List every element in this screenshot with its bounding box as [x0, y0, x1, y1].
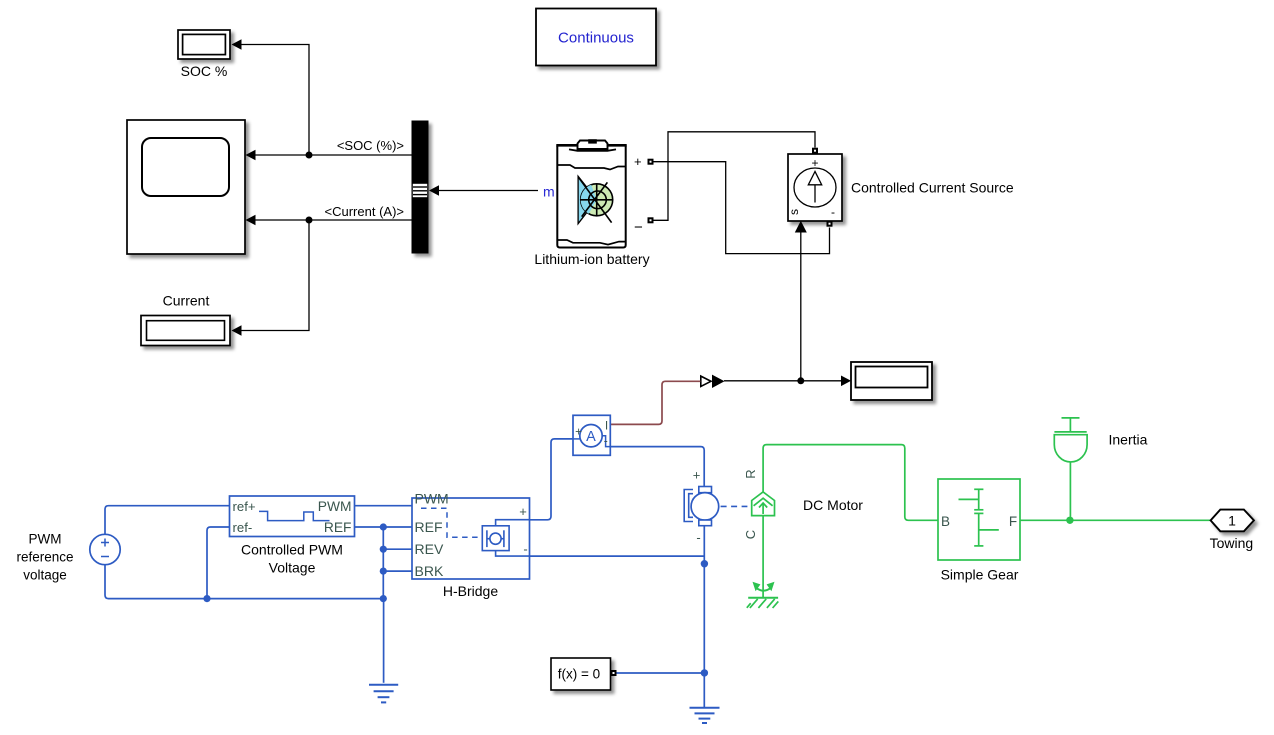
node junction display wire	[797, 377, 804, 384]
node junctions on vertical	[380, 523, 387, 530]
svg-text:A: A	[586, 429, 596, 445]
bus selector	[412, 121, 428, 253]
svg-text:ref-: ref-	[233, 520, 253, 535]
svg-text:1: 1	[1228, 513, 1236, 529]
wire gear F to Towing	[1020, 519, 1211, 521]
wire PS maroon from current sensor	[611, 381, 701, 424]
port Towing outport 1	[1211, 510, 1254, 532]
converter PS-Simulink triangles	[701, 376, 711, 386]
node junction Current	[306, 217, 313, 224]
wire source top to ref+	[105, 506, 230, 535]
wire SOC (%) scope line	[246, 150, 256, 161]
svg-text:voltage: voltage	[23, 568, 67, 583]
wire H-Bridge - rail	[530, 555, 705, 557]
wire to Display	[841, 376, 851, 387]
wire source bottom + bottom rail	[105, 565, 384, 599]
sensor Current Sensor	[573, 415, 610, 455]
svg-text:H-Bridge: H-Bridge	[443, 583, 498, 599]
port rotational R chevron	[752, 492, 775, 516]
wire H-Bridge + to sensor	[530, 439, 574, 520]
svg-text:reference: reference	[16, 550, 73, 565]
wire REF out	[355, 526, 413, 528]
ground electrical reference left	[369, 685, 398, 703]
svg-text:R: R	[743, 469, 758, 478]
svg-text:Continuous: Continuous	[558, 30, 634, 47]
svg-text:-: -	[523, 542, 527, 557]
wire SOC display to vertical	[232, 39, 242, 50]
svg-text:+: +	[634, 154, 642, 169]
display SOC % block	[178, 30, 230, 59]
svg-text:+: +	[575, 425, 582, 439]
svg-text:<SOC (%)>: <SOC (%)>	[337, 138, 404, 153]
display Current block	[141, 316, 230, 346]
wire battery + to CCS -	[654, 162, 830, 254]
inertia Inertia icon	[1054, 418, 1087, 520]
svg-text:PWM: PWM	[415, 491, 449, 507]
source Controlled Current Source	[788, 154, 842, 221]
svg-text:-: -	[831, 205, 835, 219]
battery Lithium-ion battery	[556, 139, 626, 247]
svg-text:+: +	[519, 504, 527, 519]
wire battery - to CCS +	[654, 132, 816, 221]
svg-text:SOC %: SOC %	[181, 63, 228, 79]
svg-text:Current: Current	[163, 293, 210, 309]
svg-text:Towing: Towing	[1210, 535, 1254, 551]
display Display block	[851, 362, 932, 400]
node junction ref- rail	[203, 595, 210, 602]
svg-text:Simple Gear: Simple Gear	[941, 567, 1019, 583]
svg-text:PWM: PWM	[318, 499, 352, 514]
block Simple Gear	[938, 479, 1020, 560]
svg-text:<Current (A)>: <Current (A)>	[325, 204, 404, 219]
svg-text:PWM: PWM	[29, 532, 62, 547]
icon H-bridge motor	[482, 526, 509, 551]
svg-text:F: F	[1009, 514, 1017, 529]
svg-text:Inertia: Inertia	[1109, 432, 1148, 448]
svg-text:B: B	[941, 514, 950, 529]
svg-text:f(x) = 0: f(x) = 0	[558, 667, 600, 682]
wire f(x)=0 to node	[617, 672, 705, 674]
svg-text:ref+: ref+	[233, 499, 256, 514]
wire REF/REV/BRK vertical	[382, 527, 384, 599]
block Controlled PWM Voltage	[230, 496, 355, 537]
battery icon pie	[578, 176, 613, 223]
svg-text:REV: REV	[415, 541, 444, 557]
wire ref- drop	[207, 527, 230, 599]
wire PWM out	[355, 505, 413, 507]
svg-text:s: s	[787, 209, 801, 215]
wire rail to ground	[383, 599, 385, 683]
ground mechanical rotational reference	[747, 582, 779, 608]
svg-text:−: −	[634, 219, 643, 236]
svg-text:-: -	[604, 434, 608, 448]
svg-text:BRK: BRK	[415, 563, 444, 579]
svg-text:Lithium-ion battery: Lithium-ion battery	[534, 251, 649, 267]
node junction f(x)	[701, 669, 708, 676]
wire sensor to motor +	[610, 447, 704, 487]
svg-text:Controlled Current Source: Controlled Current Source	[851, 180, 1014, 196]
wire motor - down	[703, 526, 705, 708]
wire Current (A) scope line	[246, 215, 256, 226]
svg-text:-: -	[696, 530, 700, 545]
svg-text:+: +	[811, 156, 818, 170]
source PWM reference voltage	[90, 534, 120, 564]
block H-Bridge	[412, 498, 530, 579]
ground electrical reference right	[690, 708, 720, 723]
svg-text:C: C	[743, 530, 758, 539]
block Continuous	[536, 9, 656, 66]
wire C to rotational reference	[762, 516, 764, 598]
svg-text:REF: REF	[415, 519, 443, 535]
svg-text:I: I	[605, 419, 608, 433]
node junction SOC	[306, 152, 313, 159]
wire S control input	[795, 221, 807, 233]
svg-text:+: +	[693, 468, 701, 483]
svg-text:Voltage: Voltage	[269, 560, 316, 576]
wire dashed motor to rotational port	[721, 505, 748, 507]
svg-text:Controlled PWM: Controlled PWM	[241, 542, 343, 558]
wire R to gear B	[763, 445, 938, 521]
node junction motor/H-bridge	[701, 560, 708, 567]
node junction inertia	[1066, 517, 1073, 524]
scope Scope block	[127, 120, 245, 254]
svg-text:m: m	[543, 184, 555, 200]
svg-text:DC Motor: DC Motor	[803, 497, 863, 513]
wire to Current display	[241, 220, 309, 331]
wire dashed PWM internal	[421, 508, 480, 537]
wire bus input from battery m	[429, 185, 439, 196]
block f(x)=0 solver	[551, 658, 611, 690]
svg-text:REF: REF	[324, 520, 352, 535]
